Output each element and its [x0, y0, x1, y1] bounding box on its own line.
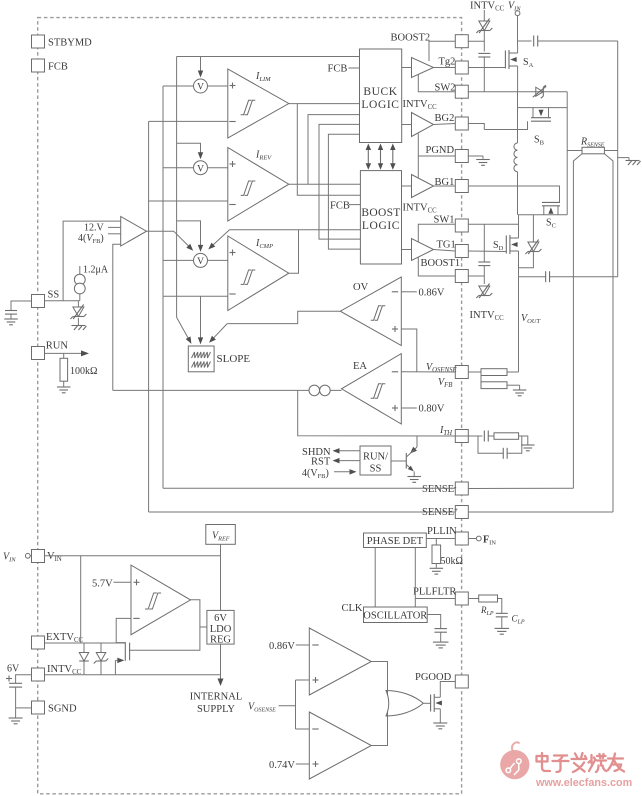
ground (RUN resistor) [57, 387, 70, 393]
wire BOOST2 to driver top [429, 41, 455, 61]
svg-text:V: V [197, 164, 204, 174]
pin SENSE+ [455, 506, 468, 519]
pin RUN [32, 341, 69, 360]
wire kelvin SENSE- line [573, 154, 582, 489]
wire VIN pin rail [45, 555, 221, 557]
RUN/SS block [360, 446, 391, 475]
comparator PGOOD lower [309, 712, 371, 779]
wire SENSE+ to kelvin line [468, 511, 613, 513]
wire buffer output diagonal into V3 [147, 231, 194, 251]
capacitor CB1 (BOOST1 bootstrap) [478, 262, 490, 266]
wire BOOST to BG1 driver [402, 185, 412, 187]
resistor R3 (ITH comp) [488, 433, 528, 445]
wire ITH pin to compensation network [455, 435, 482, 437]
MOSFET PGOOD (open drain) [431, 682, 456, 723]
svg-text:4(VFB): 4(VFB) [78, 233, 104, 245]
svg-text:0.86V: 0.86V [419, 288, 445, 299]
wire BUCK-BOOST link 1 [319, 124, 360, 239]
wire buffer input stubs [108, 227, 121, 233]
wire INTVCC rail [45, 674, 221, 676]
voltage monitor circle V1 (ILIM sense) [194, 79, 208, 93]
svg-text:SS: SS [370, 464, 382, 475]
label 0.80V (EA reference) [401, 404, 445, 415]
wire OV output to SLOPE arrow [209, 311, 340, 343]
pin SS [32, 290, 60, 308]
MOSFET SD [506, 215, 518, 277]
wire VOUT down to feedback divider [518, 277, 520, 372]
svg-text:0.86V: 0.86V [269, 641, 295, 652]
label INTVCC (top bootstrap) [470, 1, 505, 13]
svg-text:6V: 6V [214, 613, 227, 624]
svg-text:50kΩ: 50kΩ [441, 556, 463, 567]
svg-text:SGND: SGND [48, 704, 77, 715]
pin SW1 [434, 215, 469, 233]
buffer amplifier (SS clamp) [121, 217, 147, 247]
svg-text:SS: SS [48, 290, 60, 301]
bus arrows between BUCK and BOOST [366, 144, 396, 170]
wire LDO output down to INTVCC rail [220, 644, 222, 675]
MOSFET SB [484, 108, 567, 130]
wire BG2 driver bottom to PGND [418, 134, 455, 157]
svg-text:STBYMD: STBYMD [48, 38, 92, 49]
label RST with arrow [311, 457, 360, 468]
wire BG2 pin to SB gate [468, 124, 485, 130]
SLOPE compensation block [188, 346, 250, 372]
capacitor C1 (ITH comp) [484, 431, 488, 442]
voltage monitor circle V3 (ICMP sense) [194, 253, 208, 267]
pin label EXTVCC [46, 632, 84, 644]
wire EA output to ITH pin [298, 390, 456, 436]
wire EXTVCC rail [45, 642, 126, 644]
wire ILIM minus input [149, 120, 228, 122]
wire bus SENSE- (x=163) [162, 86, 164, 488]
svg-text:PHASE DET: PHASE DET [367, 536, 424, 547]
pin label PLLIN [427, 526, 457, 537]
svg-text:FCB: FCB [330, 201, 350, 212]
pin SENSE- [455, 482, 468, 495]
svg-text:INTERNAL: INTERNAL [190, 692, 243, 703]
transistor Q1 (ITH clamp) [391, 450, 414, 476]
wire CB1 to BOOST1 node [483, 266, 485, 284]
comparator (EXTVCC switch) [131, 565, 191, 635]
pin BOOST1 [421, 258, 469, 283]
wire V3 to ICMP plus [208, 259, 228, 261]
zener diode (BOOST2 clamp) [476, 10, 492, 33]
wire SENSE- pin line [163, 487, 455, 489]
resistor 50k (PLLIN) [432, 539, 441, 568]
TG2 driver [412, 58, 434, 78]
wire PHASE DET to OSCILLATOR left [374, 548, 376, 608]
wire PLLIN to PHASE DET [426, 538, 455, 540]
capacitor CIN [534, 36, 538, 47]
wire VIN down to SA [517, 16, 519, 47]
schottky diode across SB [533, 85, 547, 98]
svg-text:0.80V: 0.80V [419, 404, 445, 415]
svg-text:5.7V: 5.7V [92, 579, 113, 590]
BUCK LOGIC block [360, 49, 402, 143]
pin TG2 [439, 57, 469, 75]
pin TG1 [437, 240, 469, 258]
wire BUCK to BG2 driver [402, 124, 412, 126]
MOSFET SC [518, 202, 567, 214]
capacitor C2 (ITH parallel) [503, 448, 507, 459]
label SA [523, 57, 534, 69]
label INTVCC (bottom bootstrap) [470, 310, 505, 322]
wire PLLIN to FIN terminal [468, 538, 476, 540]
svg-text:100kΩ: 100kΩ [70, 366, 97, 377]
pin FCB [32, 59, 68, 73]
capacitor COUT [546, 271, 550, 282]
svg-text:LOGIC: LOGIC [362, 220, 400, 232]
wire V2 to IREV plus [208, 167, 228, 169]
wire VIN node to CIN [518, 40, 532, 42]
wire PHASE DET to OSCILLATOR right [414, 548, 416, 608]
wire CIN to ground rail [538, 40, 618, 42]
wire PGND line to BG1 driver [417, 156, 419, 178]
wire BOOST to TG1 driver [402, 249, 412, 251]
label SB [534, 135, 545, 147]
ground (ITH comp) [521, 445, 535, 451]
wire BG1 driver output to BG1 pin [434, 185, 456, 187]
svg-text:OV: OV [353, 282, 369, 293]
pin label PLLFLTR [413, 587, 456, 598]
gm stage circles [309, 385, 330, 396]
ground (CSS) [4, 319, 18, 325]
label 100kOhm [70, 366, 97, 377]
pin label SENSE- [422, 483, 457, 495]
comparator ILIM [228, 69, 289, 138]
wire SS pin to current source node [45, 300, 80, 302]
pin BOOST2 [391, 33, 469, 48]
pin label PGOOD [415, 672, 452, 683]
pin STBYMD [32, 35, 93, 49]
wire SW1 to bootstrap cap CB1 [483, 224, 485, 261]
wire comparator output to LDO and pass FET gate [130, 600, 207, 651]
resistor 100k (RUN) [60, 353, 68, 386]
comparator PGOOD upper [309, 628, 371, 695]
wire CVCC to ground [15, 687, 17, 717]
wire zener to bootstrap cap CB2 [483, 30, 485, 52]
pin PLLFLTR [455, 592, 468, 605]
TG1 driver [412, 239, 434, 261]
capacitor CLP [496, 613, 525, 625]
wire VREF to VIN rail to LDO [220, 544, 222, 610]
svg-text:REG: REG [210, 635, 231, 646]
pin BG1 [435, 177, 469, 193]
capacitor CB2 (BOOST2 bootstrap) [478, 53, 490, 57]
wire ground spur (right) [618, 158, 629, 160]
label INTERNAL SUPPLY [190, 692, 243, 716]
wire SW1 to TG1 driver top [418, 224, 455, 242]
ground (SGND) [9, 718, 23, 724]
svg-text:RUN: RUN [46, 341, 69, 352]
comparator IREV [228, 148, 289, 222]
zener diode D2 (EXTVCC) [94, 643, 109, 675]
wire RUN pin arrow [45, 350, 89, 356]
pin PGOOD [455, 675, 468, 688]
wire PGOOD lower output to OR gate [371, 711, 387, 746]
svg-text:4(VFB): 4(VFB) [302, 468, 329, 480]
wire ICMP output [289, 230, 299, 273]
wire EXTVCC comp minus to EXTVCC rail [116, 618, 131, 643]
label VOUT [521, 313, 540, 325]
zener diode (SS clamp) [70, 301, 86, 325]
wire BG1 pin to SC gate [468, 186, 559, 202]
wire CB2 to SW2 line [483, 57, 485, 92]
pin BG2 [435, 113, 469, 130]
wire PLLFLTR line [415, 598, 455, 600]
pin VOSENSE [455, 366, 468, 379]
label 0.86V (PGOOD upper) [269, 641, 309, 652]
capacitor (oscillator) [434, 629, 447, 633]
label 12.V [84, 223, 105, 234]
BG2 driver [412, 113, 434, 137]
wire INTVCC pin external [16, 675, 32, 683]
svg-text:1.2μA: 1.2μA [83, 265, 109, 276]
svg-text:SENSE-: SENSE- [422, 483, 457, 495]
wire PGOOD upper output to OR gate [371, 662, 387, 696]
ground (oscillator cap) [433, 642, 449, 648]
label INTVCC (BG2 driver supply) [403, 99, 438, 111]
label 4(VFB) [78, 233, 104, 245]
svg-text:Tg2: Tg2 [439, 57, 456, 68]
terminal VIN (bottom left) [3, 552, 32, 564]
wire BUCK-BOOST link 2 [328, 134, 360, 249]
label CLK [342, 603, 363, 614]
wire internal supply arrow [218, 675, 224, 686]
wire BUCK to TG2 driver [402, 67, 412, 69]
wire V1 left stub [163, 85, 194, 87]
svg-text:FCB: FCB [328, 64, 348, 75]
IC boundary (dashed) [38, 18, 462, 794]
ground (PGND pin) [468, 156, 490, 165]
pin label SENSE+ [422, 506, 458, 518]
wire osc cap to ground [440, 632, 442, 641]
label FCB (BOOST input) [330, 201, 360, 212]
inductor L [514, 92, 518, 215]
wire SENSE- to kelvin line [468, 487, 573, 489]
pin SW2 [435, 83, 469, 99]
wire OSCILLATOR cap [427, 615, 441, 629]
svg-text:PLLFLTR: PLLFLTR [413, 587, 456, 598]
wire IREV minus input [149, 200, 228, 202]
svg-text:BOOST: BOOST [361, 207, 400, 219]
pin VIN [32, 550, 45, 563]
wire VIN branch to EXTVCC rail [80, 556, 82, 643]
svg-text:PLLIN: PLLIN [427, 526, 457, 537]
svg-text:SUPPLY: SUPPLY [197, 704, 235, 715]
rail SB/SC common source [566, 92, 568, 215]
label INTVCC (BG1 driver supply) [403, 203, 438, 215]
wire top rail to BUCK LOGIC [177, 56, 360, 58]
svg-text:EA: EA [353, 361, 367, 372]
pin SGND [32, 701, 78, 715]
wire TG1 driver bottom to BOOST1 [418, 257, 455, 276]
svg-text:FCB: FCB [48, 62, 68, 73]
BOOST LOGIC block [360, 171, 401, 264]
zener diode (BOOST1 clamp) [476, 284, 492, 299]
svg-text:BUCK: BUCK [363, 86, 397, 98]
wire VOUT line [519, 276, 618, 278]
resistor R2 (feedback bottom) [481, 372, 507, 389]
current source 1.2uA [74, 265, 108, 301]
wire kelvin SENSE+ line [604, 154, 613, 512]
wire SS to buffer top input [63, 221, 121, 301]
pin ITH [455, 430, 468, 443]
pass MOSFET (EXTVCC switch) [115, 642, 129, 675]
MOSFET SA [505, 47, 517, 92]
ground rail (right) [617, 41, 619, 277]
label VOSENSE (PGOOD input) [248, 702, 276, 714]
terminal VIN (top) [508, 1, 521, 16]
wire SENSE+ pin line [149, 511, 456, 513]
watermark url [535, 777, 632, 789]
svg-text:CLK: CLK [342, 603, 363, 614]
schottky diode across SD [519, 215, 542, 268]
label 6V and plus (INTVCC cap) [6, 664, 20, 682]
ground (PGOOD FET) [433, 723, 447, 729]
wire BOOST1 pin to bootstrap node [468, 275, 485, 277]
svg-text:V: V [197, 83, 204, 93]
label SHDN with arrow [302, 447, 360, 458]
wire SW1 pin line [468, 223, 518, 225]
svg-text:BOOST2: BOOST2 [391, 33, 431, 44]
wire bus slope-comp (x=176.6) [176, 57, 178, 318]
svg-text:www.elecfans.com: www.elecfans.com [535, 777, 632, 789]
pin label VFB [438, 377, 452, 389]
wire CSS to ground [10, 314, 12, 318]
6V LDO REG block [207, 610, 234, 645]
wire VOSENSE to PGOOD comparators [279, 680, 310, 729]
watermark text (Chinese, drawn strokes) [537, 753, 625, 772]
ground (SS zener) [71, 326, 86, 331]
label SD [493, 240, 504, 252]
svg-text:SLOPE: SLOPE [217, 353, 251, 365]
wire VOSENSE pin to divider [468, 371, 481, 373]
OSCILLATOR block [363, 607, 427, 623]
svg-text:RST: RST [311, 457, 331, 468]
resistor RSENSE [567, 137, 618, 154]
wire TG1 driver output to TG1 pin [434, 250, 456, 252]
wire VOSENSE pin to EA minus [401, 371, 455, 373]
terminal FIN [476, 535, 496, 547]
svg-text:V: V [197, 257, 204, 267]
svg-text:LDO: LDO [210, 624, 232, 635]
BG1 driver [412, 175, 434, 198]
svg-text:6V: 6V [7, 664, 20, 675]
pin PGND [426, 145, 469, 163]
wire BOOST2 pin to bootstrap node [468, 40, 485, 42]
voltage monitor circle V2 (IREV sense) [194, 161, 208, 175]
wire SW2 node line [468, 91, 567, 93]
diode D1 (EXTVCC) [79, 643, 89, 675]
svg-text:LOGIC: LOGIC [361, 99, 399, 111]
pin label VOSENSE [426, 362, 458, 374]
wire IREV output branch to BUCK [308, 115, 360, 185]
ground (CLP) [495, 628, 510, 634]
PHASE DET block [364, 533, 427, 548]
wire ILIM output branch to BOOST [297, 104, 360, 196]
wire TG2 driver output to TG2 pin [434, 67, 456, 69]
comparator ICMP [228, 236, 289, 311]
wire ILIM output to BUCK [289, 103, 360, 105]
wire V2 left stub [163, 167, 194, 169]
wire OR output to PGOOD FET gate [423, 702, 430, 704]
ground (50k) [430, 568, 444, 574]
wire CLP to ground [501, 617, 503, 628]
label 0.74V (PGOOD lower) [269, 760, 309, 771]
pin PLLIN [455, 532, 468, 545]
wire BG2 driver output to BG2 pin [434, 124, 456, 125]
wire ITH to transistor collector with arrow [410, 436, 417, 454]
svg-text:RUN/: RUN/ [363, 452, 388, 463]
label 4(VFB) input with arrow [302, 468, 357, 480]
wire TG1 pin to SD gate [468, 250, 506, 253]
wire branch to V3 arrow [177, 221, 204, 252]
svg-text:0.74V: 0.74V [269, 760, 295, 771]
pin label INTVCC [47, 664, 82, 676]
wire IREV output to BOOST [289, 183, 361, 185]
pin label ITH [439, 425, 453, 437]
ground (Q1 emitter) [407, 477, 421, 483]
capacitor CSS (soft start) [5, 311, 17, 315]
pin label VIN [47, 551, 62, 563]
pin INTVCC [32, 668, 45, 681]
capacitor CVCC (INTVCC bypass) [9, 683, 22, 687]
wire ICMP minus branch arrow into SLOPE [198, 296, 203, 344]
svg-text:OSCILLATOR: OSCILLATOR [363, 611, 427, 622]
wire TG2 pin to SA gate [468, 67, 505, 69]
ground (RSENSE right) [626, 161, 641, 166]
wire OV plus to VOSENSE [401, 329, 417, 372]
svg-text:BG2: BG2 [435, 113, 455, 124]
wire ICMP net diagonal arrow into V3 [208, 230, 229, 250]
svg-text:BOOST1: BOOST1 [421, 258, 461, 269]
wire ICMP net to BOOST [230, 229, 361, 231]
wire bus SENSE+ (x=148.6) [148, 121, 150, 512]
label SC [546, 218, 556, 230]
wire arrow into V1 [198, 57, 203, 78]
wire SW2 to TG2 driver bottom [418, 74, 455, 91]
svg-text:PGND: PGND [426, 145, 455, 156]
wire SGND pin to ground node [16, 707, 32, 709]
error amplifier EA [342, 354, 402, 424]
resistor RLP [479, 595, 498, 617]
label FCB (BUCK input) [328, 64, 360, 75]
ground (feedback divider) [513, 390, 527, 396]
label 0.86V (OV threshold) [401, 288, 445, 299]
OR gate U2 [386, 691, 423, 717]
comparator OV [340, 277, 401, 346]
wire slope-comp bus diagonal arrow into SLOPE [177, 317, 192, 344]
wire PLLFLTR to RLP [468, 598, 478, 600]
VREF block [206, 525, 236, 545]
wire buffer lower input from EA line [113, 244, 121, 390]
wire V1 to ILIM plus [208, 85, 228, 87]
watermark logo (elecfans) [500, 742, 529, 779]
label 5.7V [92, 579, 131, 590]
wire EA output line [113, 389, 342, 391]
svg-text:TG1: TG1 [437, 240, 456, 251]
wire ICMP minus input [163, 295, 228, 297]
resistor R1 (feedback top) [481, 369, 519, 376]
pin EXTVCC [32, 636, 45, 649]
wire R2 to ground [507, 385, 520, 389]
label 50kOhm [441, 556, 463, 567]
wire RLP to CLP [498, 599, 502, 614]
wire SS pin external cap [11, 301, 32, 311]
wire V3 left stub [163, 259, 194, 261]
